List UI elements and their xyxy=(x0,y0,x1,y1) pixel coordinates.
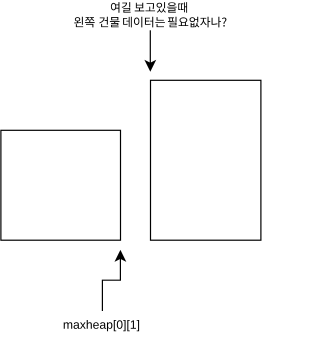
right building rectangle xyxy=(151,80,261,240)
left building rectangle xyxy=(1,130,121,240)
wire: down arrow shaft from annotation to right building xyxy=(149,30,151,64)
annotation word 왼쪽 xyxy=(74,17,94,28)
label maxheap[0][1] xyxy=(64,320,139,331)
wire: elbow connector from maxheap label up to gap between buildings xyxy=(102,257,120,311)
annotation word 여길 xyxy=(111,2,131,13)
annotation word 필요없자나? xyxy=(168,17,227,28)
arrowhead of up arrow (classic) xyxy=(116,251,125,260)
annotation word 데이터는 xyxy=(123,17,165,28)
arrowhead of down arrow (classic) xyxy=(146,61,155,70)
annotation word 보고있을때 xyxy=(135,2,187,13)
annotation word 건물 xyxy=(99,17,119,28)
